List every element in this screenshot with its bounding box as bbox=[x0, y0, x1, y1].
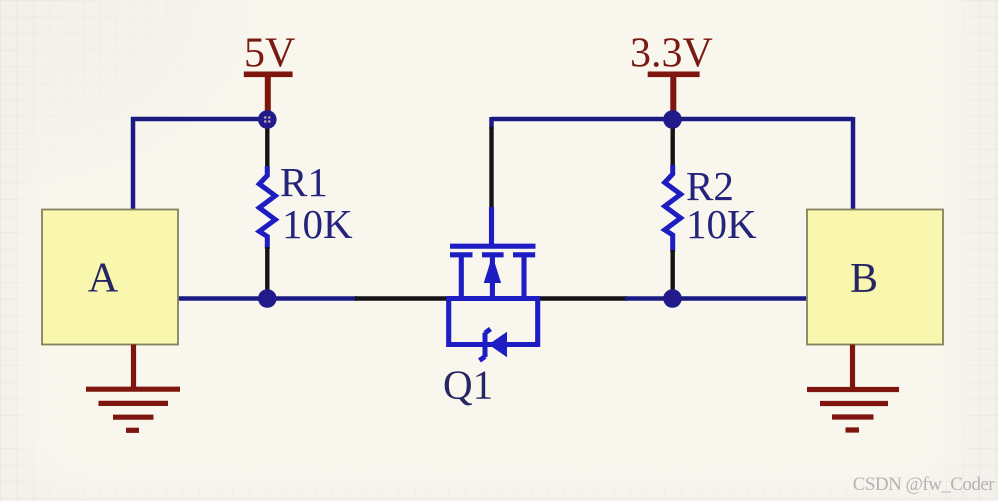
bulk arrow of Q1 bbox=[484, 256, 501, 284]
resistor R2 bbox=[665, 165, 681, 252]
watermark text bbox=[853, 474, 995, 495]
label R1 bbox=[280, 159, 328, 205]
pin gate black segment bbox=[489, 127, 493, 209]
drain vertical bbox=[521, 254, 526, 300]
body diode bar of Q1 bbox=[480, 329, 491, 361]
pin R2 bottom black bbox=[671, 250, 675, 292]
wire net 3.3V top horizontal bbox=[492, 117, 854, 122]
source vertical bbox=[459, 254, 464, 300]
block A sheet symbol bbox=[42, 210, 178, 345]
pin drain black segment bbox=[536, 296, 627, 300]
label A bbox=[88, 256, 119, 302]
label 5V bbox=[244, 31, 295, 77]
gate bar bbox=[450, 244, 536, 249]
channel segment middle bbox=[482, 252, 504, 257]
wire A to node left navy bbox=[176, 296, 357, 301]
gate lead bbox=[489, 207, 494, 246]
wire net A top vertical into block A bbox=[131, 117, 136, 212]
wire node to B navy bbox=[625, 296, 808, 301]
junction node A row bbox=[258, 289, 277, 308]
pin R1 bottom black bbox=[265, 247, 269, 292]
label 3.3V bbox=[630, 31, 713, 77]
channel segment right bbox=[513, 252, 535, 257]
label Q1 bbox=[443, 362, 493, 408]
power symbol 3.3V bbox=[648, 74, 700, 113]
bottom rail bbox=[449, 296, 538, 301]
pin R2 top black bbox=[671, 125, 675, 167]
wire net A top horizontal bbox=[131, 117, 269, 122]
power symbol 5V bbox=[244, 74, 293, 113]
junction node 5V bbox=[258, 110, 277, 129]
body loop bbox=[449, 296, 538, 345]
svg-text:CSDN @fw_Coder: CSDN @fw_Coder bbox=[853, 474, 995, 495]
svg-text:R1: R1 bbox=[280, 159, 328, 205]
label B bbox=[850, 256, 878, 302]
svg-text:B: B bbox=[850, 256, 878, 302]
bulk vertical bbox=[490, 254, 495, 300]
svg-text:A: A bbox=[88, 256, 119, 302]
value label 10K of R1 bbox=[282, 201, 353, 247]
resistor R1 bbox=[259, 166, 275, 249]
svg-text:5V: 5V bbox=[244, 31, 295, 77]
svg-text:Q1: Q1 bbox=[443, 362, 493, 408]
wire vertical into block B bbox=[851, 117, 856, 212]
svg-text:10K: 10K bbox=[686, 201, 757, 247]
ground symbol under A bbox=[86, 345, 180, 431]
junction node 3.3V bbox=[663, 110, 682, 129]
ground symbol under B bbox=[807, 345, 899, 431]
label R2 bbox=[686, 163, 734, 209]
body diode triangle of Q1 bbox=[489, 332, 508, 357]
wire gate stub navy bbox=[489, 117, 494, 129]
transistor Q1 MOSFET symbol bbox=[449, 207, 538, 345]
value label 10K of R2 bbox=[686, 201, 757, 247]
svg-text:10K: 10K bbox=[282, 201, 353, 247]
pin R1 top black bbox=[265, 125, 269, 168]
svg-text:3.3V: 3.3V bbox=[630, 31, 713, 77]
junction node B row bbox=[663, 289, 682, 308]
channel segment left bbox=[450, 252, 473, 257]
block B sheet symbol bbox=[807, 210, 943, 345]
pin source black segment bbox=[355, 296, 450, 300]
